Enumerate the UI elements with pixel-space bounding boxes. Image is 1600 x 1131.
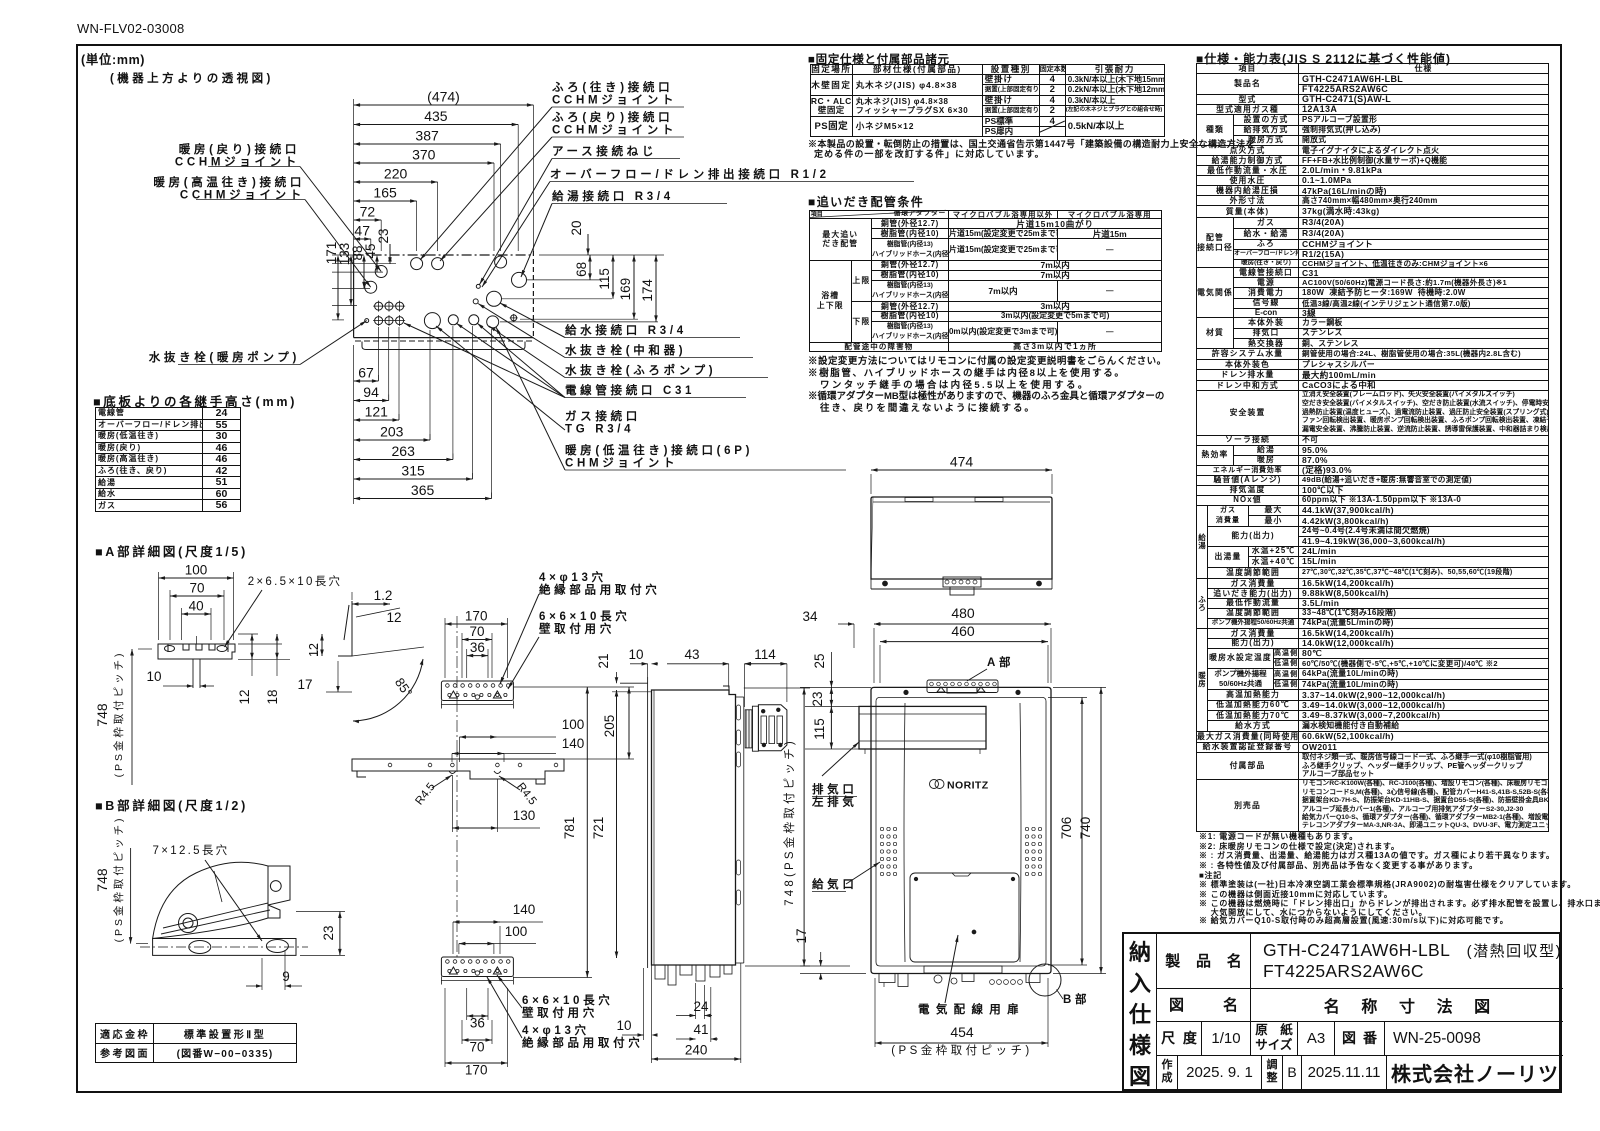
bottom bracket dims: [445, 902, 543, 1078]
B-detail dims: [94, 816, 345, 990]
front view labels: [811, 742, 1025, 1016]
intake hole grids: [880, 827, 1041, 875]
side view bottom dims 24/41/240/10: [616, 963, 740, 1063]
title block: [1122, 932, 1561, 1091]
781 / 721 vertical dims: [513, 687, 618, 978]
plan view leader labels right: [404, 80, 914, 470]
plan view leader labels left: [149, 142, 381, 365]
top mounting bracket (A part): [927, 680, 998, 693]
748 pitch dim (side/front): [744, 688, 810, 966]
B part circle: [1029, 964, 1090, 1006]
wiring door panel: [910, 873, 1019, 962]
side view top dims 21/10/43/114: [596, 647, 787, 707]
fixing table slash: [1039, 121, 1065, 133]
A-detail dims: [94, 563, 342, 786]
wall bracket top detail: [441, 616, 513, 709]
A-detail bracket drawing: [158, 636, 235, 688]
A-detail edge view with 85 deg: [297, 588, 424, 723]
joint height table: [93, 391, 297, 410]
bottom bracket labels: [487, 975, 643, 1050]
reheat table diagonal: [810, 210, 946, 217]
front view dims: [794, 605, 1106, 1057]
B-detail cam bracket drawing: [140, 862, 308, 955]
wall plate front view: [352, 700, 564, 960]
front view body: [871, 687, 1051, 973]
top view (roof): [871, 454, 1052, 596]
plan view top dimensions: [354, 89, 534, 252]
applicable frame table: [95, 1023, 297, 1063]
NORITZ logo: [930, 780, 989, 792]
plan view bottom dimensions: [354, 326, 492, 504]
wall bracket bottom detail: [441, 957, 513, 985]
reheat piping table: [808, 193, 924, 210]
top bracket dims: [445, 609, 508, 679]
plan view right dimensions: [500, 220, 664, 321]
top bracket labels: [500, 570, 660, 689]
spec table: [1196, 50, 1451, 67]
exhaust box left: [859, 706, 986, 754]
side view body: [612, 677, 787, 990]
front bottom fittings: [879, 966, 1040, 987]
plan view: unit outline seen from above: [354, 251, 534, 350]
plan view ports: [365, 256, 527, 329]
wall plate dims: [413, 687, 634, 832]
A part label: [967, 655, 1014, 681]
plan view left dimensions: [324, 228, 396, 319]
fixing spec table: [808, 51, 950, 67]
